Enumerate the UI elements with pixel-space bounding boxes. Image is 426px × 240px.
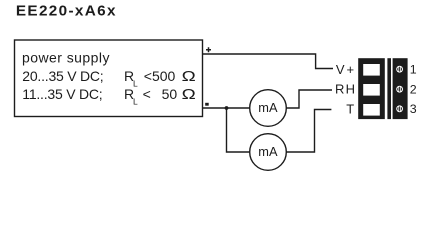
terminal 1 opening (363, 64, 380, 76)
terminal block divider bar (387, 58, 391, 119)
terminal 2 opening (363, 84, 380, 96)
svg-text:T: T (346, 102, 354, 117)
wire ammeter M1 to RH (286, 90, 332, 108)
svg-text:V+: V+ (336, 62, 356, 77)
svg-text:2: 2 (410, 83, 417, 97)
wire negative supply to ammeter M1 (203, 107, 250, 109)
wire junction to ammeter M2 (227, 108, 250, 152)
ammeter M1 (250, 90, 287, 127)
svg-text:Ω: Ω (182, 68, 196, 84)
svg-text:EE220-xA6x: EE220-xA6x (16, 4, 117, 19)
wire positive supply to V+ (203, 54, 334, 69)
wire ammeter M2 to T (286, 110, 331, 153)
node - negative terminal marker (205, 103, 209, 106)
svg-text:3: 3 (410, 102, 417, 116)
power supply value text (22, 50, 196, 107)
svg-text:11...35 V DC;: 11...35 V DC; (22, 86, 102, 102)
svg-text:power supply: power supply (22, 50, 110, 66)
svg-text:<500: <500 (144, 68, 176, 84)
screw terminal 2 (396, 86, 403, 93)
svg-text:1: 1 (410, 63, 417, 77)
svg-text:<: < (143, 86, 151, 102)
terminal block body (358, 58, 385, 119)
terminal 3 opening (363, 104, 380, 116)
junction node (225, 106, 229, 110)
node + positive terminal marker (206, 47, 211, 52)
power supply box (15, 40, 203, 117)
svg-text:50: 50 (162, 86, 178, 102)
svg-text:RH: RH (335, 82, 356, 97)
svg-text:mA: mA (258, 144, 278, 159)
terminal block screw column (393, 58, 408, 119)
svg-text:Ω: Ω (182, 86, 196, 102)
svg-text:mA: mA (258, 100, 278, 115)
screw terminal 1 (396, 66, 403, 73)
svg-text:20...35 V DC;: 20...35 V DC; (22, 68, 103, 84)
svg-text:L: L (133, 96, 138, 106)
ammeter M2 (250, 134, 287, 171)
screw terminal 3 (396, 105, 403, 112)
